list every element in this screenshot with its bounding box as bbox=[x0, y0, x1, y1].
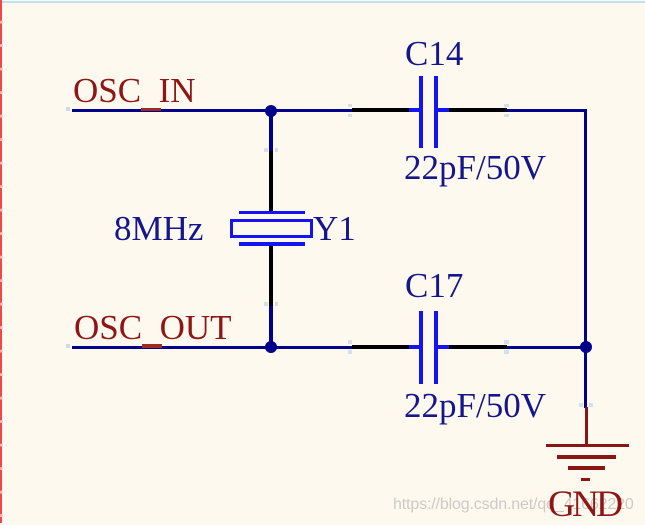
pin end marker bbox=[348, 104, 352, 108]
wire bbox=[269, 306, 272, 347]
capacitor C17 bbox=[352, 311, 507, 384]
pin end marker bbox=[579, 403, 583, 407]
junction bbox=[265, 341, 277, 353]
pin end marker bbox=[504, 340, 509, 344]
pin end marker bbox=[504, 104, 509, 108]
wire bbox=[72, 109, 353, 112]
pin end marker bbox=[264, 148, 268, 152]
value 8MHz bbox=[114, 211, 203, 246]
sheet border top bbox=[2, 1, 645, 3]
wire end marker bbox=[66, 344, 70, 348]
wire end marker bbox=[66, 107, 70, 111]
junction bbox=[265, 105, 277, 117]
pin end marker bbox=[264, 302, 268, 306]
capacitor C14 bbox=[352, 76, 507, 148]
pin end marker bbox=[348, 340, 352, 344]
wire bbox=[584, 348, 587, 408]
sheet border left ruler bbox=[0, 0, 2, 523]
designator C14 bbox=[405, 36, 463, 71]
net label GND bbox=[548, 486, 620, 524]
wire bbox=[507, 109, 587, 112]
node OSC_IN bbox=[73, 73, 196, 108]
value 22pF/50V bbox=[404, 388, 546, 423]
node OSC_OUT bbox=[74, 310, 232, 345]
designator C17 bbox=[405, 268, 463, 303]
wire bbox=[507, 346, 587, 349]
crystal Y1 bbox=[229, 151, 313, 306]
wire bbox=[72, 346, 353, 349]
ground GND bbox=[545, 407, 630, 482]
junction bbox=[580, 341, 592, 353]
designator Y1 bbox=[313, 211, 356, 246]
node OSC_IN underscore bbox=[141, 108, 161, 111]
watermark bbox=[393, 497, 634, 513]
value 22pF/50V bbox=[404, 150, 546, 185]
node OSC_OUT underscore bbox=[142, 344, 162, 347]
wire bbox=[269, 109, 272, 151]
wire bbox=[584, 109, 587, 348]
